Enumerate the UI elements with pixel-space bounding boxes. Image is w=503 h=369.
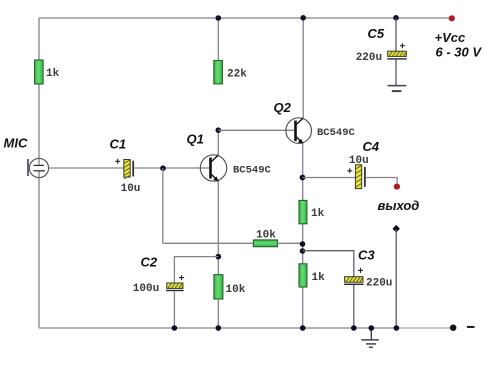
resistor 10k (Q1 emitter) bbox=[214, 275, 246, 299]
wire left rail bbox=[38, 18, 40, 328]
wire feedback horizontal to 10k bbox=[163, 242, 254, 244]
resistor 10k feedback (horizontal) bbox=[253, 230, 277, 247]
node Vcc terminal (red) bbox=[449, 15, 455, 21]
svg-text:C2: C2 bbox=[141, 255, 158, 270]
svg-text:10k: 10k bbox=[226, 284, 246, 296]
node emitter column bottom rail bbox=[300, 325, 306, 331]
node +Vcc label bbox=[435, 30, 466, 45]
ground C5 bbox=[388, 86, 407, 92]
wire C5 top bbox=[395, 18, 397, 51]
capacitor C2 100u bbox=[133, 255, 184, 295]
wire top rail bbox=[39, 17, 452, 19]
node minus sign bbox=[467, 326, 475, 328]
resistor 22k bbox=[214, 61, 247, 84]
node vyhod label bbox=[378, 198, 420, 213]
wire C2 bottom bbox=[173, 291, 175, 328]
node Q1 collector junction bbox=[216, 127, 222, 133]
wire Q1 collector to Q2 base bbox=[218, 129, 294, 131]
wire C1 to Q1 base bbox=[134, 167, 209, 169]
node Q2 collector top rail bbox=[300, 15, 306, 21]
svg-text:MIC: MIC bbox=[4, 136, 28, 151]
wire C4 to output bbox=[366, 178, 397, 184]
svg-text:C3: C3 bbox=[358, 248, 375, 263]
svg-text:10u: 10u bbox=[121, 183, 141, 195]
wire output minus down to bottom rail bbox=[395, 229, 397, 328]
wire Q2 emitter down bbox=[302, 143, 304, 328]
wire 22k top to rail bbox=[217, 18, 219, 61]
capacitor C3 220u bbox=[344, 248, 392, 290]
node output minus junction bbox=[393, 225, 400, 233]
microphone MIC bbox=[4, 136, 49, 178]
svg-text:выход: выход bbox=[378, 198, 420, 213]
svg-text:6 - 30 V: 6 - 30 V bbox=[436, 45, 483, 60]
svg-text:220u: 220u bbox=[366, 278, 392, 290]
node minus terminal bbox=[450, 325, 456, 331]
node 22k top rail bbox=[216, 15, 222, 21]
node Q1 emitter bottom rail bbox=[216, 325, 222, 331]
wire Q2 collector up to top rail bbox=[302, 18, 304, 119]
node C2 bottom rail bbox=[172, 325, 178, 331]
node C3 branch junction bbox=[300, 248, 306, 254]
wire C5 bottom bbox=[395, 60, 397, 86]
resistor R 1k top-left bbox=[35, 60, 60, 84]
node 6-30V label bbox=[436, 45, 483, 60]
node C1/feedback junction bbox=[160, 165, 166, 171]
svg-text:C1: C1 bbox=[110, 137, 127, 152]
ground bottom bbox=[361, 328, 379, 347]
capacitor C4 10u bbox=[347, 139, 380, 189]
node output minus bottom rail bbox=[394, 325, 400, 331]
wire bottom rail bbox=[39, 327, 451, 329]
wire Q1 collector up bbox=[217, 130, 219, 155]
wire feedback vertical bbox=[162, 168, 164, 243]
svg-text:Q2: Q2 bbox=[274, 100, 292, 115]
svg-text:C4: C4 bbox=[363, 139, 380, 154]
node C4 tap bbox=[300, 175, 306, 181]
wire mic to C1 bbox=[49, 167, 124, 169]
node feedback junction on emitter column bbox=[300, 241, 306, 247]
svg-text:BC549C: BC549C bbox=[233, 165, 272, 177]
node C5 top rail bbox=[393, 15, 399, 21]
resistor 1k upper (Q2 emitter) bbox=[299, 200, 325, 223]
svg-text:BC549C: BC549C bbox=[317, 127, 356, 139]
wire Q1 emitter down bbox=[217, 181, 219, 328]
node output terminal (red) bbox=[394, 184, 400, 190]
capacitor C5 220u bbox=[356, 26, 407, 64]
wire C2 branch bbox=[174, 257, 218, 283]
svg-text:100u: 100u bbox=[133, 283, 159, 295]
wire C3 branch horizontal bbox=[303, 251, 354, 277]
node C3 bottom rail bbox=[351, 325, 357, 331]
svg-text:1k: 1k bbox=[311, 208, 325, 220]
transistor Q2 BC549C bbox=[274, 100, 356, 144]
wire emitter to C4 bbox=[303, 177, 356, 179]
transistor Q1 BC549C bbox=[187, 132, 272, 182]
svg-text:22k: 22k bbox=[227, 68, 247, 80]
svg-text:Q1: Q1 bbox=[187, 132, 204, 147]
resistor 1k lower bbox=[299, 264, 325, 287]
node ground bottom rail bbox=[369, 325, 375, 331]
svg-text:220u: 220u bbox=[356, 52, 382, 64]
svg-text:+Vcc: +Vcc bbox=[435, 30, 466, 45]
capacitor C1 10u bbox=[110, 137, 141, 196]
node C2 tap on Q1 emitter bbox=[216, 254, 222, 260]
wire 10k to emitter column bbox=[277, 242, 302, 244]
svg-text:1k: 1k bbox=[46, 68, 60, 80]
svg-text:C5: C5 bbox=[368, 26, 385, 41]
wire C3 bottom bbox=[353, 285, 355, 328]
svg-text:1k: 1k bbox=[312, 272, 326, 284]
